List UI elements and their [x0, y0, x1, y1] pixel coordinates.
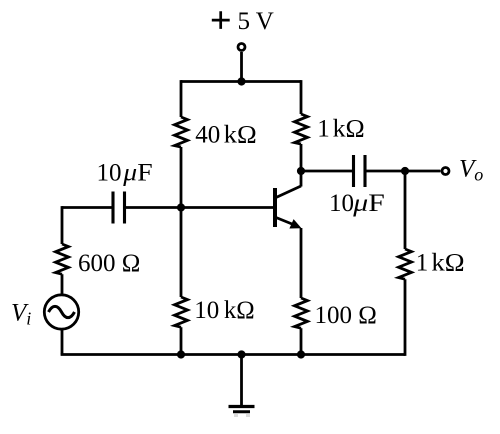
svg-text:100 Ω: 100 Ω: [315, 302, 377, 329]
resistor R6 1 kOhm (load): [399, 249, 412, 279]
output terminal Vo (open circle): [442, 168, 449, 175]
svg-text:10: 10: [329, 190, 354, 217]
transistor Q1 emitter arrowhead: [289, 219, 301, 228]
svg-text:10: 10: [194, 297, 219, 324]
wire: +5V stub down to top rail: [240, 52, 243, 82]
svg-text:600 Ω: 600 Ω: [78, 250, 140, 277]
svg-text:Vi: Vi: [11, 300, 31, 329]
wire: source branch top: [61, 206, 64, 244]
wire: base node down to R3 top: [180, 208, 183, 298]
svg-text:kΩ: kΩ: [224, 122, 257, 149]
svg-text:kΩ: kΩ: [431, 250, 464, 277]
wire: top rail to R2 top: [300, 80, 303, 114]
wire: R6 bottom to ground rail: [404, 279, 407, 356]
wire: R1 bottom to base node: [180, 147, 183, 208]
node: base junction dot: [177, 203, 185, 211]
node: collector junction dot: [297, 167, 305, 175]
node: output junction dot: [401, 167, 409, 175]
resistor R1 40 kOhm: [175, 117, 188, 147]
svg-text:1: 1: [416, 250, 429, 277]
source Vi circle: [44, 295, 78, 329]
node: top rail junction dot: [237, 77, 245, 85]
svg-text:10: 10: [97, 160, 122, 187]
wire: collector node to C2: [301, 170, 354, 173]
wire: top rail to R1 top: [180, 80, 183, 117]
capacitor C2 plates: [354, 155, 366, 187]
resistor R4 100 Ohm (emitter): [295, 298, 308, 328]
capacitor C1 10uF (input) left wire: [62, 206, 113, 209]
ground bar 1: [229, 405, 255, 408]
svg-text:40: 40: [195, 122, 220, 149]
svg-text:Vo: Vo: [459, 156, 483, 185]
wire: R3 bottom to ground rail: [180, 327, 183, 354]
svg-text:1: 1: [317, 116, 330, 143]
source Vi sine wave: [49, 306, 75, 317]
wire: R4 bottom to ground rail: [300, 328, 303, 354]
svg-text:kΩ: kΩ: [224, 297, 255, 324]
resistor R5 600 Ohm (source): [56, 244, 69, 274]
node: rail dot at emitter branch: [297, 350, 305, 358]
node: rail dot at base branch: [177, 350, 185, 358]
svg-text:5 V: 5 V: [238, 8, 274, 35]
ground stem: [240, 355, 243, 406]
svg-text:μF: μF: [352, 190, 385, 217]
ground bar 2: [233, 410, 250, 413]
wire: top rail: [181, 80, 301, 83]
capacitor C1 plates: [113, 192, 125, 224]
ground bar 3 (faint): [234, 414, 250, 417]
wire: C1 to base of transistor: [125, 206, 276, 209]
+5V supply terminal (open circle): [238, 44, 245, 51]
wire: R5 bottom to source Vi: [61, 274, 64, 295]
transistor Q1 emitter lead: [276, 218, 297, 227]
wire: R2 bottom to collector: [300, 144, 303, 187]
wire: bottom ground rail: [61, 353, 405, 356]
transistor Q1 bar: [273, 188, 277, 227]
wire: source Vi bottom to ground rail: [61, 329, 64, 354]
wire: emitter down to R4 top: [300, 228, 303, 298]
resistor R3 10 kOhm: [175, 297, 188, 327]
wire: C2 to output terminal: [365, 170, 441, 173]
transistor Q1 collector lead: [276, 186, 301, 198]
resistor R2 1 kOhm (collector): [295, 114, 308, 144]
wire: output node down to R6 top: [404, 171, 407, 249]
node: rail dot at ground stem: [237, 350, 245, 358]
svg-text:μF: μF: [122, 160, 152, 187]
svg-text:kΩ: kΩ: [333, 116, 365, 143]
+5V supply label plus sign: [212, 11, 230, 29]
